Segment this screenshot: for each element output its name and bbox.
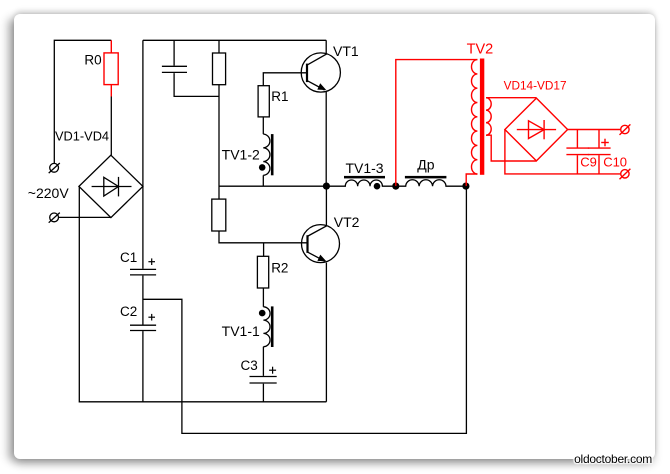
svg-text:C9: C9 (580, 154, 597, 169)
svg-text:TV1-2: TV1-2 (222, 147, 260, 163)
svg-text:Др: Др (417, 157, 434, 173)
svg-text:VT1: VT1 (333, 43, 359, 59)
svg-text:C1: C1 (120, 250, 137, 265)
svg-text:TV2: TV2 (467, 41, 494, 57)
svg-text:R2: R2 (271, 260, 288, 275)
svg-text:C2: C2 (120, 304, 137, 319)
svg-text:C3: C3 (241, 358, 258, 373)
svg-text:VD1-VD4: VD1-VD4 (55, 129, 109, 144)
svg-text:~220V: ~220V (28, 185, 70, 201)
svg-text:C10: C10 (603, 154, 627, 169)
svg-text:VD14-VD17: VD14-VD17 (504, 79, 567, 93)
svg-text:TV1-1: TV1-1 (222, 323, 260, 339)
svg-text:TV1-3: TV1-3 (345, 160, 383, 176)
svg-text:R0: R0 (84, 53, 101, 68)
svg-text:R1: R1 (271, 89, 288, 104)
svg-text:VT2: VT2 (334, 214, 360, 230)
